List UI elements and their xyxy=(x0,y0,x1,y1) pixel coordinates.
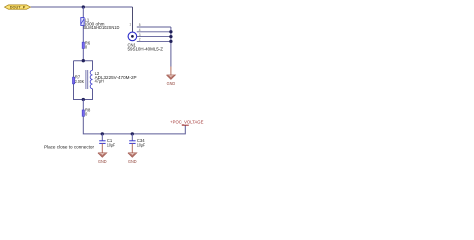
pin 4 xyxy=(137,31,171,33)
ferrite bead L1 xyxy=(81,18,84,26)
junction loop top xyxy=(82,59,85,62)
svg-text:59S10H-40ML5-Z: 59S10H-40ML5-Z xyxy=(128,47,164,52)
svg-text:10µF: 10µF xyxy=(107,142,116,147)
ground under C1 xyxy=(98,143,107,164)
junction bus pin3 xyxy=(169,35,172,38)
svg-text:4: 4 xyxy=(139,28,141,32)
wire top rail from port to connector corner xyxy=(31,6,133,8)
pin 5 xyxy=(137,26,171,28)
svg-text:BLM15HD102SN1D: BLM15HD102SN1D xyxy=(83,25,119,30)
svg-text:2: 2 xyxy=(139,38,141,42)
svg-text:Place close to connector: Place close to connector xyxy=(44,145,95,150)
svg-text:10µF: 10µF xyxy=(137,142,146,147)
svg-text:GND: GND xyxy=(98,159,107,164)
junction bus pin4 xyxy=(169,30,172,33)
wire R8 to rail and power stub xyxy=(83,116,185,134)
capacitor C1 xyxy=(99,134,105,144)
resistor R8 xyxy=(82,110,84,116)
inductor L2 core bars xyxy=(85,70,87,89)
svg-text:1: 1 xyxy=(129,23,131,27)
resistor R7 xyxy=(73,77,75,84)
pin 2 xyxy=(137,40,171,42)
wire parallel loop xyxy=(74,61,93,100)
svg-text:5: 5 xyxy=(139,23,141,27)
wire vertical into L1 xyxy=(82,7,84,18)
wire R6 to loop xyxy=(82,48,84,60)
connector CN1 xyxy=(128,23,171,42)
connector circle xyxy=(128,32,137,41)
svg-text:47µH: 47µH xyxy=(95,79,104,84)
svg-text:DOUT_P: DOUT_P xyxy=(10,6,26,10)
junction loop bottom xyxy=(82,98,85,101)
resistor R6 xyxy=(82,42,84,48)
wire connector drop xyxy=(132,7,134,32)
port DOUT_P xyxy=(5,5,31,10)
junction C1 xyxy=(101,132,104,135)
pin 3 xyxy=(137,36,171,38)
power port +POC_VOLTAGE xyxy=(170,119,203,125)
junction C34 xyxy=(131,132,134,135)
inductor L2 coil xyxy=(90,70,92,88)
svg-text:+POC_VOLTAGE: +POC_VOLTAGE xyxy=(170,119,203,124)
svg-text:GND: GND xyxy=(128,159,137,164)
svg-text:3: 3 xyxy=(139,33,141,37)
ground right xyxy=(167,67,176,87)
wire loop bottom to R8 xyxy=(82,100,84,111)
svg-text:2.00K: 2.00K xyxy=(75,79,84,84)
svg-text:GND: GND xyxy=(167,81,176,86)
wire L1 to R6 xyxy=(82,25,84,42)
junction top rail xyxy=(82,5,85,8)
wire connector shield bus xyxy=(170,27,172,67)
capacitor C34 xyxy=(129,134,135,144)
ground under C34 xyxy=(128,143,137,164)
junction bus pin2 xyxy=(169,40,172,43)
